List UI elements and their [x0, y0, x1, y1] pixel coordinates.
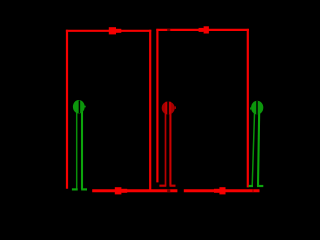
lamp D2 leg 2	[169, 104, 171, 186]
arrow I2 left on loop2 top	[199, 26, 209, 33]
lamp D1 leg 1	[76, 103, 78, 189]
lamp D2 leg 1	[165, 104, 167, 186]
lamp D3 green right	[249, 101, 264, 186]
lamp D1 bulb	[73, 100, 85, 113]
lamp D3 leg 2	[258, 104, 259, 186]
wire loop2 left vertical	[156, 29, 158, 183]
wire loop1 left vertical	[66, 30, 68, 189]
wire bottom bus right segment	[184, 189, 260, 192]
arrow I4 left on bus right	[214, 187, 226, 194]
wire bottom bus left segment	[92, 189, 177, 192]
lamp D1 foot 1	[72, 188, 78, 190]
lamp D2 bulb split	[167, 102, 169, 115]
lamp D1 polarity tab	[85, 106, 86, 108]
arrow I1 right on loop1 top	[109, 27, 122, 34]
wire loop2 top horizontal	[156, 29, 249, 31]
lamp D2 red middle	[159, 102, 176, 186]
lamp D3 foot 2	[257, 185, 263, 187]
wire shadow on bus right	[252, 190, 253, 193]
wire break shadow on loop2 top	[167, 29, 170, 31]
lamp D2 foot 1	[159, 185, 166, 187]
lamp D2 bulb	[162, 102, 175, 115]
wire break shadow on bus left	[167, 190, 170, 193]
lamp D1 green left	[72, 100, 87, 189]
wire loop1 right vertical	[149, 30, 151, 191]
lamp D1 leg 2	[81, 103, 83, 189]
wire loop1 top horizontal	[66, 30, 151, 32]
lamp D2 leg 1 through bulb	[165, 102, 167, 114]
arrow I3 right on bus left	[115, 187, 127, 194]
lamp D2 leg 2 through bulb	[169, 102, 171, 114]
lamp D2 polarity tab	[175, 106, 176, 109]
wire loop2 right vertical	[247, 29, 249, 188]
lamp D3 leg 1	[252, 104, 255, 186]
lamp D3 foot 1	[249, 185, 253, 187]
lamp D3 bulb	[251, 101, 263, 115]
lamp D1 foot 2	[81, 188, 87, 190]
lamp D1 bulb split	[78, 101, 80, 114]
lamp D3 polarity tab	[250, 107, 251, 109]
lamp D3 bulb split	[256, 101, 258, 115]
lamp D2 foot 2	[170, 185, 176, 187]
